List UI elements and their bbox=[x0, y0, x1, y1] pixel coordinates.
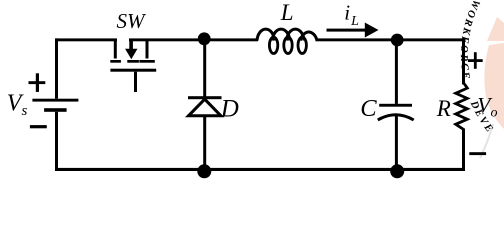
switch SW: left contact foot bbox=[110, 60, 121, 63]
wire: right vertical upper (top corner to resistor) bbox=[462, 38, 465, 84]
svg-text:R: R bbox=[436, 96, 451, 121]
svg-text:Vs: Vs bbox=[7, 90, 28, 119]
wire: left vertical from battery bottom plate to bottom wire bbox=[55, 112, 58, 171]
diode D cathode bar bbox=[188, 96, 222, 99]
svg-text:L: L bbox=[280, 0, 294, 25]
node dot: bottom of capacitor branch bbox=[390, 164, 404, 178]
wire: left vertical from top wire to battery top plate bbox=[55, 38, 58, 98]
inductor L coil: hump 4 bbox=[300, 32, 317, 41]
current arrow iL: shaft bbox=[327, 29, 369, 32]
diode D triangle (anode, pointing up) bbox=[189, 99, 221, 116]
wire: right vertical lower (resistor to bottom corner) bbox=[462, 129, 465, 172]
voltage source Vs battery: short negative plate bbox=[44, 108, 67, 112]
inductor L coil: loop 3 bbox=[298, 37, 306, 53]
switch SW: middle contact foot bbox=[127, 60, 139, 63]
inductor L coil: hump 3 bbox=[287, 29, 305, 40]
wire: capacitor branch lower bbox=[395, 115, 398, 170]
wire: top horizontal from SW arrow to inductor start bbox=[129, 38, 258, 41]
svg-text:iL: iL bbox=[344, 0, 359, 29]
capacitor C: curved bottom plate bbox=[378, 115, 414, 120]
switch SW: arrowhead pointing down bbox=[125, 49, 137, 60]
wire: diode branch upper bbox=[203, 40, 206, 97]
inductor L coil: hump 2 bbox=[272, 29, 290, 40]
switch SW: gate lead going down bbox=[134, 72, 137, 92]
svg-text:DEVEL: DEVEL bbox=[0, 0, 496, 136]
switch SW: right source stub bbox=[146, 40, 149, 59]
current arrow iL: head bbox=[365, 23, 379, 38]
inductor L coil: loop 2 bbox=[284, 37, 292, 53]
switch SW: right contact foot bbox=[139, 60, 154, 63]
inductor L coil: hump 1 bbox=[257, 29, 275, 40]
svg-text:D: D bbox=[220, 96, 239, 123]
node dot: top of capacitor branch bbox=[391, 34, 404, 47]
inductor L coil: loop 1 bbox=[269, 37, 277, 53]
Vs plus sign bbox=[29, 73, 46, 92]
wire: top horizontal from inductor end to right corner bbox=[316, 38, 466, 41]
wire: bottom horizontal bbox=[55, 168, 465, 171]
switch SW: gate bar bbox=[110, 69, 156, 72]
voltage source Vs battery: long positive plate bbox=[32, 99, 78, 102]
Vs minus sign bbox=[30, 125, 47, 128]
Vo plus sign bbox=[468, 52, 483, 69]
capacitor C: straight top plate bbox=[379, 104, 412, 107]
wire: top-left horizontal from left corner to SW left stub bbox=[55, 38, 117, 41]
wire: capacitor branch upper bbox=[395, 40, 398, 104]
node dot: top of diode branch bbox=[198, 32, 211, 45]
node dot: bottom of diode branch bbox=[197, 164, 211, 178]
svg-text:SW: SW bbox=[117, 9, 148, 33]
Vo minus sign bbox=[469, 152, 486, 155]
svg-text:C: C bbox=[360, 95, 377, 122]
switch SW (MOSFET): left drain stub bbox=[114, 40, 117, 59]
watermark logo (gray arc text + peach emblem) bbox=[0, 0, 504, 158]
resistor R zigzag bbox=[456, 83, 468, 130]
switch SW: arrow shaft bbox=[129, 40, 133, 50]
wire: diode branch lower bbox=[203, 116, 206, 170]
